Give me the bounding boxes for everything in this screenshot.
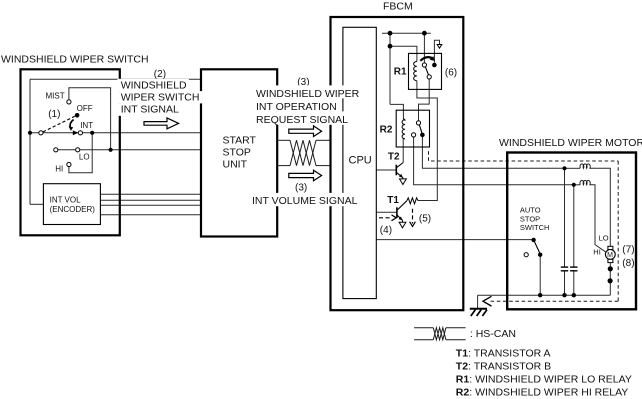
ground triangle: T1 emitter [399,222,406,228]
wire: ground rail drop to earth [477,295,479,308]
svg-text:WIPER SWITCH: WIPER SWITCH [121,92,200,104]
svg-text:WINDSHIELD WIPER SWITCH: WINDSHIELD WIPER SWITCH [1,53,149,65]
wire: branch to R1 coil [390,46,417,61]
wire: R1 common down to R2 top contact [419,79,430,121]
svg-text:STOP: STOP [223,146,251,158]
junction dot: R1 coil branch [388,44,393,49]
transistor T1 [397,201,407,222]
relay R1 actuation arc arrow [420,57,433,61]
relay R1 common contact (open circle) [427,75,431,79]
wire: rail drop left vertical [389,33,391,104]
relay R2 moving arm [419,125,422,133]
box: relay R1 [409,53,442,89]
relay R2 coil [402,119,405,139]
contact: INT (open circle) [78,131,82,135]
wire: T1 base from CPU [377,211,397,213]
contact: MIST (open circle) [67,100,71,104]
contact: wiper switch pole (open circle) [39,131,43,135]
junction dot: auto stop to rail [538,293,542,297]
box: WINDSHIELD WIPER MOTOR [507,153,636,310]
svg-text:OFF: OFF [77,104,93,113]
connector dot: motor lead (8) [608,278,613,283]
wire: capacitor 2 drop from HI line [573,185,575,267]
auto stop switch arm [534,240,541,254]
svg-text:T2: TRANSISTOR B: T2: TRANSISTOR B [456,361,551,373]
box: WINDSHIELD WIPER SWITCH [21,69,120,235]
motor M body [605,250,615,260]
svg-text:R1: R1 [394,67,407,78]
svg-text:INT VOL: INT VOL [50,195,82,204]
svg-text:(ENCODER): (ENCODER) [50,205,96,214]
relay R2 top contact (open circle) [416,121,420,125]
svg-text:AUTO: AUTO [520,205,541,214]
box: CPU [343,27,376,298]
svg-text:(4): (4) [380,225,392,236]
contact: HI (open circle) [67,162,71,166]
wire: R1 NO contact to output arrow [434,40,439,63]
wire: motor ground rail [478,294,611,296]
ground symbol: FBCM / motor earth [470,309,487,316]
svg-text:INT VOLUME SIGNAL: INT VOLUME SIGNAL [252,195,358,207]
wire: capacitor 1 to ground rail [564,271,566,295]
label: WINDSHIELD WIPER SWITCH INT SIGNAL (with knockout) [117,79,188,91]
wire: HI line choke to motor [574,184,580,186]
wire: dashed motor box right edge [617,161,619,301]
choke coil on HI line [580,180,591,184]
svg-text:(6): (6) [445,67,457,78]
wire: LO line from R2 NO contact out to motor [422,137,564,168]
dashed arrow (4) into T1 base [379,215,396,221]
auto stop switch open contact (open circle) [524,253,528,257]
junction dot: INT/HI tie [90,131,94,135]
svg-text:UNIT: UNIT [223,159,248,171]
box: FBCM [331,17,464,310]
wire: LO line after choke down to motor top [590,168,610,246]
junction dot: LO/MIST tie [109,148,113,152]
wire: feed to R2 coil [390,104,403,119]
connector dot: motor lead (7) [608,266,613,271]
svg-text:R2: R2 [380,124,393,135]
svg-text:INT OPERATION: INT OPERATION [256,101,337,113]
wire: FBCM supply rail [382,32,431,34]
svg-text:(2): (2) [154,69,166,80]
wire: dashed motor box bottom edge to arrow [490,300,619,302]
svg-text:HI: HI [55,165,63,174]
junction dot: LO line to capacitor 1 [562,166,566,170]
svg-text:REQUEST SIGNAL: REQUEST SIGNAL [256,114,348,126]
wire: encoder line 3 [100,204,200,206]
svg-text:MIST: MIST [46,92,65,101]
svg-text:: HS-CAN: : HS-CAN [470,328,516,340]
svg-text:STOP: STOP [520,214,540,223]
choke coil on LO line [580,164,591,168]
svg-text:INT: INT [80,121,93,130]
wire: HI contact down and right up to INT line [69,133,92,173]
motor M bottom terminal [608,259,613,262]
contact: OFF (filled dot) [75,113,80,118]
wire: dashed mechanical link from R1/R2 relays to motor (6) [429,151,619,161]
svg-text:R1: WINDSHIELD WIPER LO RELAY: R1: WINDSHIELD WIPER LO RELAY [456,373,632,385]
wire: rail drop to R1 contact pivot [423,33,425,63]
block arrow (2) wiper switch int signal [144,118,179,129]
auto stop switch common (filled dot) [531,238,535,242]
block arrow (3) int operation request signal [289,126,322,137]
svg-text:FBCM: FBCM [383,0,413,12]
svg-text:WINDSHIELD WIPER MOTOR: WINDSHIELD WIPER MOTOR [499,137,642,149]
junction dot: cap2 to rail [572,293,576,297]
relay R1 contact pivot (open circle) [422,63,426,67]
wire: pole top wire to START STOP UNIT [30,78,201,80]
wire: HI line after choke down to motor HI brush [590,185,605,252]
label: INT VOLUME SIGNAL (with knockout) [249,193,360,206]
wire: LO row line to start stop unit [56,149,201,151]
wire: encoder line 4 [100,214,200,216]
box: START STOP UNIT [201,69,277,236]
relay R1 coil [414,62,417,81]
wire: R2 coil down to T2 collector [402,139,404,163]
wire: HI line from R2 contact out to motor [414,137,574,185]
capacitor 1 plates [561,267,568,271]
switch arm: dashed OFF position [43,116,75,132]
junction dot: rail right [422,31,427,36]
svg-text:SWITCH: SWITCH [520,223,550,232]
svg-text:(8): (8) [622,258,634,269]
wire: pole feed to INT VOL box [30,203,43,205]
contact: LO (open circle) [76,148,80,152]
relay R2 NO contact (filled dot) [420,133,425,138]
svg-text:(3): (3) [295,183,307,194]
ground triangle: T2 emitter [400,179,407,185]
svg-text:M: M [607,252,613,259]
switch arm: arrowhead touching INT contact [73,130,79,135]
svg-text:R2: WINDSHIELD WIPER HI RELAY: R2: WINDSHIELD WIPER HI RELAY [456,386,629,398]
wire: auto stop switch to ground rail [539,255,541,296]
svg-text:LO: LO [599,234,609,243]
svg-text:WINDSHIELD: WINDSHIELD [121,80,187,92]
svg-text:(7): (7) [622,244,634,255]
svg-text:WINDSHIELD WIPER: WINDSHIELD WIPER [256,88,360,100]
junction dot: rail left [388,31,393,36]
wire: switch pole feed vertical from pole line down to encoder [29,79,31,204]
svg-text:(5): (5) [419,213,431,224]
motor M top terminal [608,246,613,249]
svg-text:HI: HI [593,248,601,257]
svg-text:(1): (1) [48,109,60,120]
wire: INT line from switch to start stop unit [30,132,201,134]
svg-text:CPU: CPU [349,155,372,167]
relay R1 moving arm [425,67,428,75]
open arrow left at end of dashed link [483,296,492,306]
label: WINDSHIELD WIPER INT OPERATION REQUEST SIGNAL (with knockout) [252,85,360,98]
wire: auto stop switch line from CPU to motor [377,239,532,241]
wire: capacitor 2 to ground rail [573,271,575,295]
dashed arrow (5) down from T1 collector [410,209,416,227]
capacitor 2 plates [570,267,577,271]
junction dot: HI line to capacitor 2 [572,183,576,187]
svg-text:T1: T1 [387,195,399,206]
switch arc arrow from OFF to INT [70,120,74,129]
svg-text:T2: T2 [388,152,400,163]
HS-CAN twisted pair symbol between start stop unit and FBCM [279,140,331,165]
arrowhead: R1 output (6) open arrow down [437,45,442,49]
resistor at T1 collector [407,198,418,204]
svg-text:START: START [223,134,257,146]
wire: encoder line 1 [100,193,200,195]
wire: MIST loop up and over to LO junction [69,88,111,150]
wire: motor bottom lead to ground rail [609,262,611,295]
wire: T2 base from CPU [377,169,397,171]
wire: R1 coil return to T1 resistor [417,81,437,201]
legend HS-CAN twisted pair symbol [414,328,466,340]
junction dot: cap1 to rail [562,293,566,297]
svg-text:INT SIGNAL: INT SIGNAL [121,103,179,115]
relay R2 NC contact (open circle) [412,133,416,137]
auto stop switch closed contact (filled dot) [538,253,542,257]
wire: capacitor 1 drop from LO line [564,168,566,266]
relay R1 NO contact (filled dot) [432,63,437,68]
box: relay R2 [396,110,429,147]
transistor T2 [396,163,403,179]
svg-text:T1: TRANSISTOR A: T1: TRANSISTOR A [456,347,551,359]
contact: LO row left (open circle) [54,148,58,152]
wire: encoder line 2 [100,199,200,201]
box: INT VOL ENCODER [43,184,100,225]
block arrow (3) int volume signal [289,170,322,181]
wire: LO line choke to motor [565,167,581,169]
junction dot: pole feed at x30 [28,131,32,135]
svg-text:LO: LO [79,153,90,162]
